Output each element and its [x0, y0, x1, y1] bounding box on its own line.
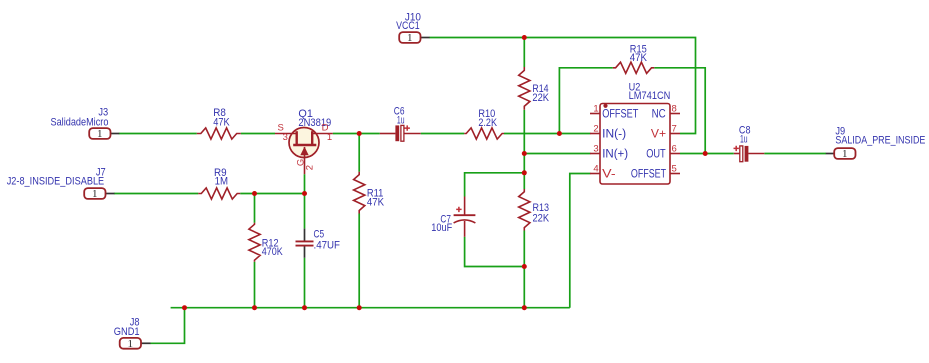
svg-text:GND1: GND1: [114, 326, 140, 338]
junction R13 top / C7: [522, 170, 527, 175]
wire R14 bottom down to IN(+) junction: [523, 110, 525, 154]
wire VCC net from J10 to V+ corner: [429, 38, 695, 134]
wire R9 to C5 branch junction: [240, 193, 304, 195]
U2 pin 4 stub: [590, 173, 600, 175]
wire R13 top junction up to IN(+) junction: [523, 154, 525, 190]
connector J3: [89, 128, 119, 140]
U2 pin 3 stub: [590, 153, 600, 155]
junction VCC/R14: [522, 35, 527, 40]
svg-text:1: 1: [842, 148, 848, 160]
svg-text:OFFSET: OFFSET: [631, 168, 666, 180]
svg-text:V+: V+: [651, 129, 666, 141]
svg-text:1: 1: [92, 188, 98, 200]
resistor R11 (vertical): [354, 172, 365, 214]
junction rail / R13: [522, 305, 527, 310]
junction Q1 drain / R11: [357, 131, 362, 136]
svg-text:SALIDA_PRE_INSIDE: SALIDA_PRE_INSIDE: [835, 135, 925, 147]
wire J8 riser to ground rail: [150, 308, 184, 344]
junction rail / R11: [357, 305, 362, 310]
svg-text:470K: 470K: [262, 246, 283, 258]
resistor R12 (vertical): [249, 223, 260, 262]
U2 pin 1 stub: [590, 113, 600, 115]
wire R8 to Q1 source: [241, 133, 275, 135]
wire R11 bottom to ground rail: [358, 214, 360, 308]
wire J7 to R9: [114, 193, 198, 195]
U2 pin 2 stub: [590, 133, 600, 135]
wire V- pin 4 to ground rail: [570, 174, 591, 308]
svg-text:IN(-): IN(-): [602, 129, 626, 141]
U2 pin 1 marker dot: [603, 104, 607, 108]
wire R15 right to OUT junction: [654, 68, 705, 154]
wire R12 branch down from R9 row: [254, 194, 256, 223]
resistor R14 (vertical): [519, 67, 530, 110]
svg-text:1: 1: [327, 132, 332, 143]
wire J3 to R8: [119, 133, 197, 135]
svg-text:OUT: OUT: [646, 149, 666, 161]
connector J8: [120, 338, 151, 350]
svg-text:SalidadeMicro: SalidadeMicro: [51, 116, 109, 128]
svg-text:6: 6: [672, 144, 677, 155]
U2 pin 8 stub: [670, 113, 680, 115]
resistor R8: [197, 128, 241, 139]
junction IN(-) / feedback: [557, 131, 562, 136]
capacitor C5 (vertical): [296, 229, 314, 258]
wire ground rail: [171, 307, 570, 309]
svg-text:8: 8: [672, 104, 677, 115]
svg-text:2.2K: 2.2K: [478, 117, 497, 129]
wire IN(+) junction to pin 3: [524, 153, 590, 155]
svg-text:7: 7: [672, 124, 677, 135]
capacitor C7 (vertical polarized): [454, 197, 476, 237]
svg-text:VCC1: VCC1: [396, 20, 420, 32]
wire Q1 drain to C6 with junction at R11 branch: [333, 133, 380, 135]
transistor Q1: [275, 128, 333, 175]
junction rail / C5: [302, 305, 307, 310]
wire OUT pin to C8: [680, 153, 734, 155]
svg-text:1: 1: [407, 32, 413, 44]
svg-text:OFFSET: OFFSET: [602, 109, 638, 121]
svg-text:IN(+): IN(+): [602, 149, 628, 161]
svg-text:LM741CN: LM741CN: [629, 90, 671, 102]
svg-text:J2-8_INSIDE_DISABLE: J2-8_INSIDE_DISABLE: [7, 175, 105, 187]
wire R10 to pin 2 IN(-) crossing x=524: [504, 133, 591, 135]
connector J9: [826, 148, 856, 160]
junction R9 row / R12: [252, 191, 257, 196]
op-amp U2: [590, 104, 680, 185]
svg-text:1: 1: [593, 104, 598, 115]
svg-text:5: 5: [672, 164, 677, 175]
svg-text:4: 4: [593, 164, 598, 175]
junction R9 row / C5 / Q1 gate: [302, 191, 307, 196]
wire C5 bottom to ground rail: [304, 258, 306, 308]
wire R11 branch down from drain junction: [358, 134, 360, 172]
capacitor C6: [380, 125, 421, 141]
svg-text:47K: 47K: [213, 117, 230, 129]
svg-text:2: 2: [304, 165, 315, 170]
connector J10: [399, 32, 429, 44]
wire R12 bottom to ground rail: [254, 262, 256, 308]
wire C8 to J9: [764, 153, 826, 155]
svg-text:47K: 47K: [367, 196, 385, 208]
wire C7 top row from C7 to R13 top junction: [465, 173, 525, 197]
junction rail / J8: [182, 305, 187, 310]
junction R13 bottom / C7: [522, 264, 527, 269]
resistor R10: [464, 128, 504, 139]
svg-text:1u: 1u: [397, 114, 405, 126]
svg-text:2: 2: [593, 124, 598, 135]
junction IN(+) / R14-R13: [522, 151, 527, 156]
wire R13 bottom to ground rail: [523, 231, 525, 308]
svg-text:3: 3: [593, 144, 598, 155]
svg-text:22K: 22K: [533, 213, 550, 225]
wire feedback riser from IN(-) junction up to R15 row: [559, 68, 612, 134]
wire VCC branch down to R14 top: [523, 38, 525, 68]
svg-text:1u: 1u: [740, 133, 748, 145]
resistor R9: [198, 188, 240, 199]
wire C7 bottom row to R13 bottom junction: [465, 237, 525, 267]
svg-text:1M: 1M: [215, 176, 228, 188]
svg-text:NC: NC: [652, 109, 666, 121]
svg-text:10uF: 10uF: [431, 222, 452, 234]
resistor R13 (vertical): [519, 189, 530, 230]
U2 pin 6 stub: [670, 153, 680, 155]
svg-text:1: 1: [128, 338, 134, 350]
connector J7: [84, 188, 114, 200]
wire C5 branch down from R9 row: [304, 194, 306, 229]
svg-text:.47UF: .47UF: [314, 239, 341, 251]
wire Q1 gate down to R9 row: [304, 174, 306, 193]
svg-text:1: 1: [97, 128, 103, 140]
svg-text:22K: 22K: [532, 92, 549, 104]
U2 pin 5 stub: [670, 173, 680, 175]
svg-text:47K: 47K: [630, 52, 648, 64]
junction rail / R12: [252, 305, 257, 310]
wire C6 to R10: [421, 133, 465, 135]
svg-text:3: 3: [283, 132, 288, 143]
junction OUT / R15: [703, 151, 708, 156]
capacitor C8: [734, 146, 765, 162]
svg-text:V-: V-: [602, 168, 616, 180]
U2 pin 7 stub: [670, 133, 680, 135]
resistor R15: [613, 62, 654, 73]
